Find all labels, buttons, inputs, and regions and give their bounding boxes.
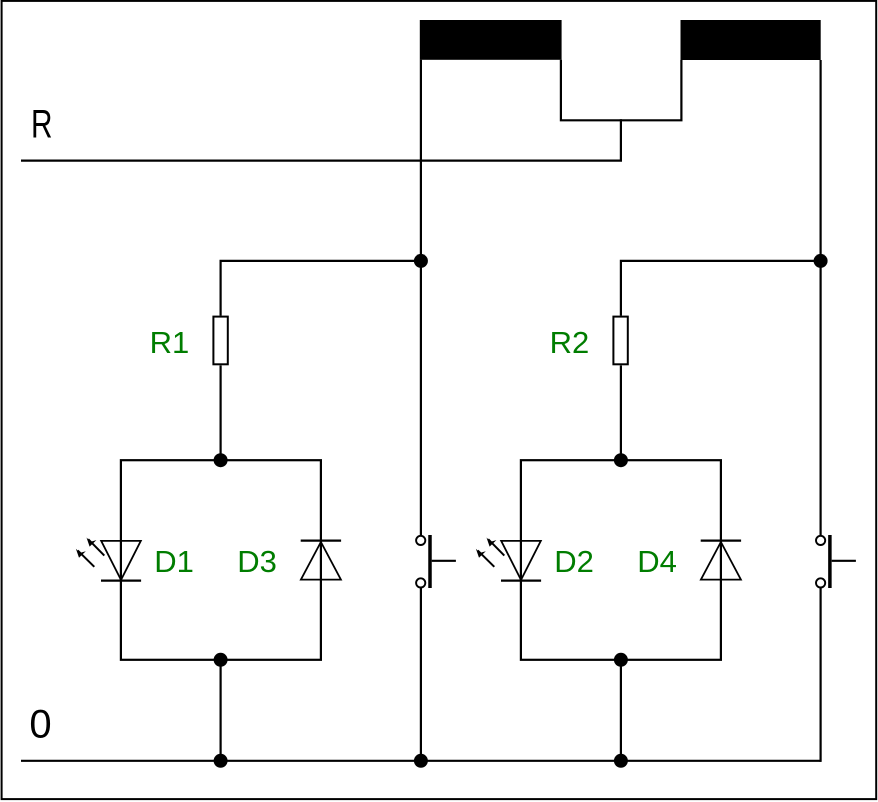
svg-text:D1: D1 — [154, 544, 194, 579]
junction node (box1 top) — [214, 453, 228, 467]
pushbutton S1 — [416, 535, 456, 588]
svg-text:D4: D4 — [637, 544, 677, 579]
junction node (right vertical / R2 branch) — [814, 254, 828, 268]
terminal block K1 (top left black bar) — [420, 20, 562, 60]
wire: R2 branch top (up and right to right vertical) — [621, 261, 821, 316]
LED D1 — [76, 538, 141, 581]
wire: R1 branch top (up and right to left vertical) — [221, 261, 421, 316]
wire: switch S2 to 0 rail corner — [819, 588, 821, 762]
LED D2 — [476, 538, 541, 581]
junction node (left vertical / R1 branch) — [414, 254, 428, 268]
svg-text:D2: D2 — [554, 544, 594, 579]
junction node (box1 bottom) — [214, 653, 228, 667]
junction node (0 rail / S1) — [414, 754, 428, 768]
svg-text:R1: R1 — [150, 325, 190, 360]
svg-text:R2: R2 — [550, 325, 590, 360]
diode D3 — [301, 541, 341, 580]
net 0 rail — [21, 760, 821, 762]
wire: diode bridge loop 2 (box) — [521, 460, 721, 660]
svg-text:D3: D3 — [237, 544, 277, 579]
net R rail — [21, 160, 622, 162]
wire: diode bridge loop 1 (box) — [121, 460, 321, 660]
wire: K1 right edge down, across, up to K2 left edge — [561, 60, 682, 121]
pushbutton S2 — [816, 535, 856, 588]
junction node (box2 top) — [614, 453, 628, 467]
wire: switch S1 to 0 rail — [420, 588, 422, 761]
diode D4 — [701, 541, 741, 580]
junction node (0 rail / box2) — [614, 754, 628, 768]
wire: right vertical from K2 to switch S2 — [819, 60, 821, 536]
svg-text:R: R — [31, 103, 53, 147]
resistor R1 — [213, 317, 227, 365]
junction node (0 rail / box1) — [214, 754, 228, 768]
junction node (box2 bottom) — [614, 653, 628, 667]
wire: connector midpoint down to R rail — [620, 119, 622, 160]
wire: R2 bottom to box2 top — [620, 366, 622, 461]
svg-text:0: 0 — [29, 702, 51, 746]
wire: box1 bottom to 0 rail — [220, 660, 222, 761]
resistor R2 — [613, 317, 627, 365]
wire: R1 bottom to box1 top — [220, 366, 222, 461]
wire: left vertical from K1 to switch S1 — [420, 60, 422, 536]
terminal block K2 (top right black bar) — [681, 20, 821, 60]
wire: box2 bottom to 0 rail — [620, 660, 622, 761]
